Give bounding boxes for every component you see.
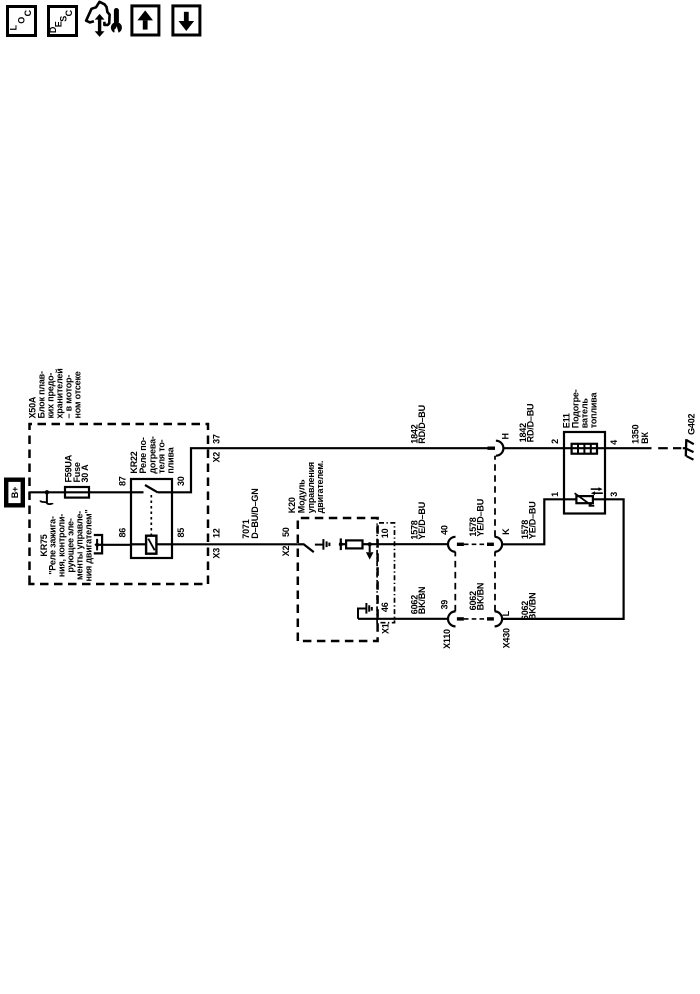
wire 30 to X2 to X430 H bbox=[172, 448, 488, 492]
svg-text:B+: B+ bbox=[10, 487, 20, 498]
ground G402 bbox=[683, 439, 694, 460]
wire H to E11 pin 2 bbox=[503, 447, 605, 449]
KR75 label bbox=[39, 509, 94, 581]
K20 internal ground bbox=[315, 539, 330, 550]
svg-text:YE/D–BU: YE/D–BU bbox=[528, 501, 538, 539]
svg-text:BK/BN: BK/BN bbox=[417, 587, 427, 615]
svg-text:85: 85 bbox=[176, 528, 186, 538]
wire label 7071 D-BU/D-GN bbox=[241, 488, 260, 538]
battery terminal B+ bbox=[6, 480, 23, 506]
car adjust icon bbox=[86, 2, 122, 37]
svg-text:4: 4 bbox=[609, 440, 619, 445]
fuse label bbox=[64, 454, 90, 482]
wire K to E11 pin 1 bbox=[502, 499, 576, 544]
connector X430 pin L bbox=[487, 611, 502, 626]
wire label 1578 YE/D-BU (between) bbox=[468, 499, 486, 537]
wire label 1842 RD/D-BU (after H) bbox=[518, 404, 536, 443]
wire label 6062 BK/BN (pin 46) bbox=[409, 587, 427, 615]
svg-text:BK/BN: BK/BN bbox=[528, 593, 538, 621]
K20 internal resistor bbox=[341, 540, 370, 548]
coil link dashed bbox=[150, 495, 152, 535]
svg-text:K: K bbox=[501, 528, 511, 535]
svg-text:X430: X430 bbox=[502, 628, 512, 648]
wire L to E11 pin 3 bbox=[502, 499, 623, 619]
svg-text:10: 10 bbox=[380, 528, 390, 538]
svg-text:X1: X1 bbox=[381, 623, 391, 634]
toolbar bbox=[0, 0, 700, 60]
svg-text:ния двигателем": ния двигателем" bbox=[83, 509, 93, 581]
svg-text:YE/D–BU: YE/D–BU bbox=[476, 499, 486, 537]
connector X110 pin 40 bbox=[448, 537, 464, 552]
X50A label bbox=[27, 368, 82, 418]
junction node with direction arrow bbox=[366, 542, 374, 559]
svg-text:87: 87 bbox=[118, 476, 128, 486]
svg-text:D–BU/D–GN: D–BU/D–GN bbox=[250, 488, 260, 538]
svg-text:RD/D–BU: RD/D–BU bbox=[526, 404, 536, 443]
K20 terminal bar with node bbox=[339, 538, 343, 550]
svg-text:X110: X110 bbox=[442, 629, 452, 649]
relay contact switch bbox=[131, 485, 172, 492]
svg-text:плива: плива bbox=[166, 446, 176, 473]
svg-text:30: 30 bbox=[176, 476, 186, 486]
X110 connector link dashed bbox=[454, 552, 456, 612]
E11 fuel heater box bbox=[564, 432, 605, 514]
K20 module dashed box bbox=[298, 518, 378, 641]
svg-text:37: 37 bbox=[211, 434, 221, 444]
svg-text:X2: X2 bbox=[211, 452, 221, 463]
connector X430 pin K bbox=[487, 537, 502, 552]
svg-text:L: L bbox=[501, 610, 511, 616]
svg-text:12: 12 bbox=[211, 528, 221, 538]
thermistor bbox=[575, 493, 595, 506]
relay coil bbox=[131, 536, 172, 554]
thermistor arrows bbox=[591, 487, 603, 495]
wire label 1578 YE/D-BU (after K) bbox=[520, 501, 538, 539]
relay KR22 box bbox=[131, 479, 172, 558]
svg-text:двигателем.: двигателем. bbox=[315, 461, 325, 513]
wire label 6062 BK/BN (between) bbox=[468, 583, 486, 611]
svg-text:YE/D–BU: YE/D–BU bbox=[417, 502, 427, 540]
connector X430 pin H bar bbox=[488, 447, 496, 450]
svg-text:2: 2 bbox=[550, 439, 560, 444]
svg-text:ВК: ВК bbox=[640, 432, 650, 444]
svg-text:топлива: топлива bbox=[589, 392, 599, 429]
svg-text:3: 3 bbox=[609, 492, 619, 497]
wire label 1842 RD/D-BU bbox=[409, 405, 427, 444]
K20 internal ground at pin 46 bbox=[358, 603, 372, 619]
fuse F59UA bbox=[65, 487, 89, 498]
connector X430 pin H arc bbox=[496, 441, 504, 456]
wire pin 46 to X110 39 bbox=[358, 618, 448, 620]
wire label 1350 BK bbox=[631, 424, 650, 443]
svg-text:H: H bbox=[500, 433, 510, 439]
X430 connector link dashed bbox=[494, 456, 496, 612]
svg-text:46: 46 bbox=[380, 602, 390, 612]
connector X110 pin 39 bbox=[448, 611, 464, 626]
splice S-curl bbox=[40, 492, 53, 504]
svg-text:X3: X3 bbox=[211, 548, 221, 559]
up arrow button bbox=[132, 6, 159, 35]
svg-text:40: 40 bbox=[440, 525, 450, 535]
down arrow button bbox=[173, 6, 200, 35]
E11 label bbox=[562, 389, 599, 428]
KR22 label bbox=[129, 436, 176, 473]
KR75 feed symbol bbox=[94, 535, 102, 553]
wire KR75 symbol to relay coil 86 bbox=[102, 544, 131, 546]
svg-text:G402: G402 bbox=[687, 413, 697, 434]
svg-text:86: 86 bbox=[118, 528, 128, 538]
svg-text:X2: X2 bbox=[281, 546, 291, 557]
wire 1350 BK bbox=[605, 447, 681, 449]
heater element bbox=[572, 444, 597, 454]
dashed jumper 40-K bbox=[464, 543, 487, 545]
svg-text:1: 1 bbox=[550, 492, 560, 497]
wire label 6062 BK/BN (after L) bbox=[520, 593, 538, 621]
wire 85 to X3 to K20 pin 50 bbox=[172, 543, 298, 545]
svg-text:50: 50 bbox=[281, 527, 291, 537]
wire pin 10 to X110 40 bbox=[370, 543, 449, 545]
fuse block X50A dashed box bbox=[30, 424, 209, 584]
K20 internal switch bbox=[298, 544, 314, 552]
wire label 1578 YE/D-BU (pin 10) bbox=[409, 502, 427, 540]
dashed jumper 39-L bbox=[464, 618, 487, 620]
wire B+ to fuse to relay 87 bbox=[30, 491, 132, 493]
svg-text:BK/BN: BK/BN bbox=[476, 583, 486, 611]
junction node bbox=[45, 490, 49, 494]
svg-text:30 A: 30 A bbox=[80, 464, 90, 483]
LOC button bbox=[8, 7, 36, 36]
DESC button bbox=[48, 7, 76, 36]
X1 connector strip bbox=[377, 523, 394, 623]
svg-text:RD/D–BU: RD/D–BU bbox=[417, 405, 427, 444]
svg-text:ном отсеке: ном отсеке bbox=[72, 371, 82, 418]
K20 label bbox=[287, 461, 325, 513]
svg-text:39: 39 bbox=[440, 600, 450, 610]
